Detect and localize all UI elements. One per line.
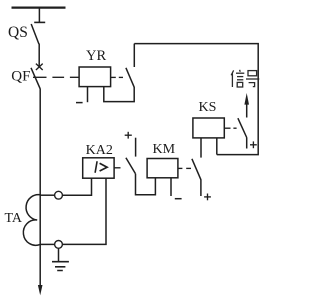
- TA top terminal circle: [55, 191, 63, 199]
- TA bottom terminal circle: [55, 241, 63, 249]
- disconnector QS blade: [31, 24, 39, 44]
- mechanical link KM to contact (dashed): [178, 167, 191, 169]
- QF auxiliary contact fixed lead: [133, 44, 135, 67]
- svg-text:KA2: KA2: [86, 143, 113, 158]
- KM contact fixed lead (KS left leg): [200, 138, 202, 158]
- label QF: [11, 68, 30, 84]
- wire top loop: [134, 44, 258, 155]
- wire QS to QF: [38, 44, 40, 67]
- plus sign at KS contact: [250, 141, 257, 148]
- circuit breaker QF blade: [31, 68, 40, 89]
- wire line to bottom circle: [40, 243, 54, 245]
- label QS: [8, 24, 28, 41]
- label 信号 (signal) drawn strokes: [231, 70, 259, 87]
- ground symbol: [52, 262, 69, 271]
- label KM: [153, 142, 176, 157]
- KA2 contact fixed lead: [135, 138, 137, 157]
- arrow to signal: [246, 104, 248, 118]
- intermediate relay KM coil box: [147, 159, 178, 178]
- KA2 contact blade: [126, 158, 136, 174]
- main feeder line: [39, 89, 41, 286]
- label YR: [86, 48, 106, 64]
- current transformer TA winding arcs: [23, 195, 40, 246]
- KM coil right lead: [170, 178, 172, 196]
- KA2 right leg to TA bottom terminal: [62, 178, 106, 244]
- signal relay KS coil box: [193, 118, 224, 138]
- KM coil left lead to KA2 contact: [136, 174, 156, 195]
- label KA2: [86, 143, 113, 158]
- ground lead: [58, 248, 60, 261]
- mechanical link YR to QF aux contact (dashed): [111, 76, 123, 78]
- overcurrent relay KA2 box: [83, 158, 114, 178]
- feeder arrowhead: [38, 285, 43, 295]
- wire aux contact to YR right leg: [104, 87, 134, 102]
- YR coil left lead: [87, 87, 89, 103]
- busbar: [12, 6, 66, 8]
- plus sign at KM contact: [204, 194, 211, 201]
- wire busbar tap: [38, 8, 40, 23]
- svg-text:QS: QS: [8, 24, 28, 41]
- mechanical link QF to YR (dashed): [33, 76, 79, 78]
- KS contact bottom lead: [246, 137, 248, 148]
- trip coil YR box: [79, 67, 111, 87]
- minus sign at KM: [175, 198, 182, 200]
- disconnector QS fixed contact bar: [34, 21, 45, 23]
- plus sign at KA2 contact: [125, 132, 132, 139]
- label TA: [5, 211, 23, 226]
- svg-text:QF: QF: [11, 68, 30, 84]
- KM contact bottom lead: [200, 180, 202, 197]
- svg-text:YR: YR: [86, 48, 106, 64]
- mechanical link KA2 to contact (dashed): [114, 167, 120, 169]
- svg-text:KS: KS: [199, 100, 217, 115]
- KM contact blade: [192, 159, 201, 180]
- QF auxiliary contact blade: [126, 68, 134, 87]
- svg-text:KM: KM: [153, 142, 176, 157]
- KS contact blade: [238, 118, 247, 137]
- wire line to top circle: [40, 194, 54, 196]
- KA2 left leg to TA top terminal: [62, 178, 91, 195]
- svg-text:TA: TA: [5, 211, 23, 226]
- label KS: [199, 100, 217, 115]
- minus sign at YR: [76, 102, 83, 104]
- circuit breaker QF contact cross: [36, 64, 43, 70]
- label I> inside KA2: [95, 161, 107, 173]
- KS right leg wire: [216, 138, 218, 155]
- mechanical link KS to its contact (dashed): [224, 127, 236, 129]
